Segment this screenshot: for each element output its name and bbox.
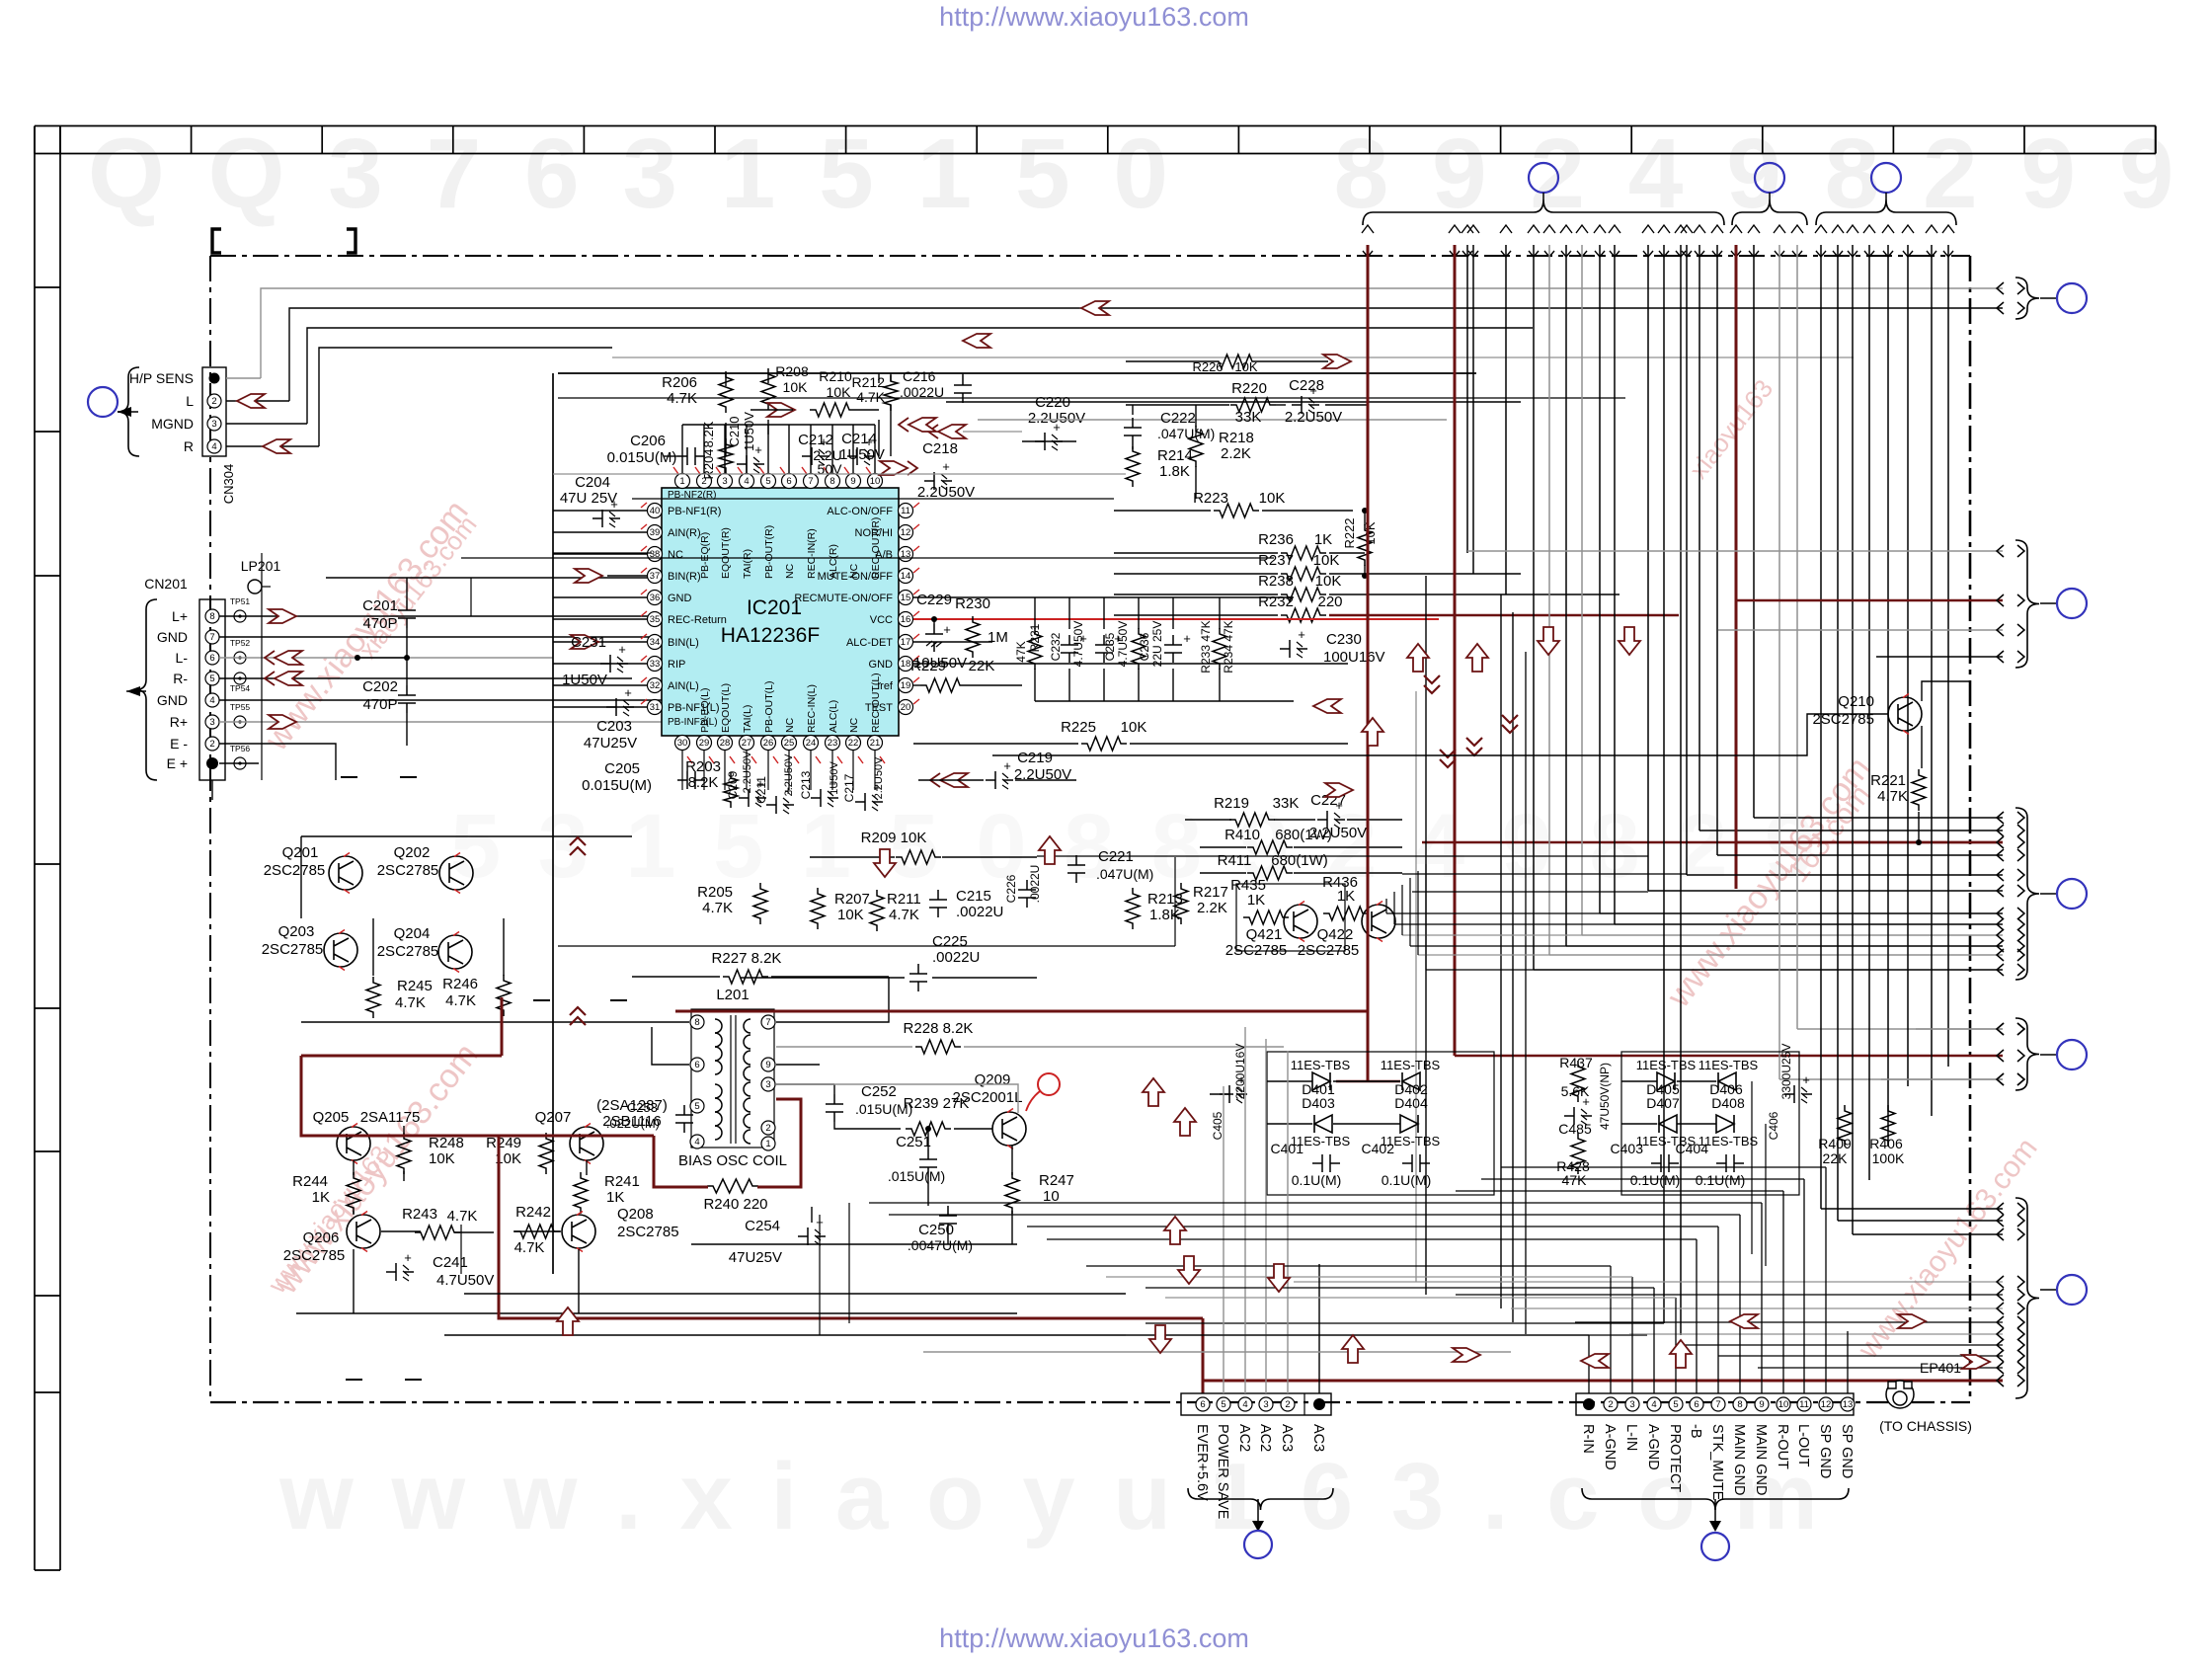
svg-text:0.1U(M): 0.1U(M) xyxy=(1630,1172,1681,1188)
svg-text:4.7U50V: 4.7U50V xyxy=(436,1272,494,1289)
transistor Q203 xyxy=(324,933,357,967)
svg-text:R204: R204 xyxy=(701,448,716,479)
transistor Q208 xyxy=(562,1215,595,1248)
wire ic left trunk xyxy=(552,373,554,1274)
cap C204 xyxy=(592,510,620,527)
svg-text:REC-IN(L): REC-IN(L) xyxy=(806,684,818,733)
wire E+ row xyxy=(219,762,259,764)
resistor R406 xyxy=(1881,1105,1895,1147)
resistor R206 xyxy=(719,371,733,413)
svg-text:HA12236F: HA12236F xyxy=(721,624,820,647)
svg-text:R219: R219 xyxy=(1214,795,1249,812)
svg-text:22: 22 xyxy=(848,738,859,749)
resistor R411 xyxy=(1247,866,1293,880)
group4 circle xyxy=(2040,1054,2056,1056)
svg-text:E -: E - xyxy=(170,736,188,752)
resistor R221 xyxy=(1912,769,1926,811)
svg-text:.0022U: .0022U xyxy=(932,949,980,966)
svg-text:6: 6 xyxy=(1694,1399,1698,1410)
wire gnd18 xyxy=(913,663,1348,665)
svg-text:NOR/HI: NOR/HI xyxy=(855,527,894,539)
svg-text:R242: R242 xyxy=(515,1204,551,1221)
bridge area crossing verticals xyxy=(1751,1081,1753,1254)
cap C230 xyxy=(1280,640,1307,658)
resistor R226 xyxy=(1213,355,1258,368)
svg-text:8.2K: 8.2K xyxy=(688,774,719,791)
cap C403 xyxy=(1651,1154,1679,1172)
svg-text:470P: 470P xyxy=(362,696,397,713)
arrow bin l xyxy=(571,635,598,649)
svg-text:AIN(R): AIN(R) xyxy=(668,527,701,539)
svg-text:36: 36 xyxy=(650,593,661,603)
resistor R225 xyxy=(1081,737,1127,751)
IC201 pin ticks xyxy=(913,503,919,508)
wire r218 col xyxy=(1195,405,1197,427)
svg-text:ALC-ON/OFF: ALC-ON/OFF xyxy=(827,506,893,517)
svg-text:REC-IN(R): REC-IN(R) xyxy=(806,528,818,579)
cap C205 xyxy=(677,771,705,789)
svg-text:35: 35 xyxy=(650,614,661,625)
svg-text:.0022U: .0022U xyxy=(956,904,1003,920)
svg-text:1: 1 xyxy=(679,476,684,487)
transistor Q205 xyxy=(337,1127,370,1160)
svg-text:C215: C215 xyxy=(956,888,991,905)
wire l201 top xyxy=(632,1021,689,1023)
svg-text:R227 8.2K: R227 8.2K xyxy=(712,950,782,967)
svg-text:1M: 1M xyxy=(987,629,1008,646)
wire top pins up xyxy=(681,425,683,473)
svg-text:R234 47K: R234 47K xyxy=(1222,620,1235,673)
svg-text:47U50V(NP): 47U50V(NP) xyxy=(1598,1063,1612,1130)
svg-text:C253: C253 xyxy=(627,1100,658,1115)
wire c201 top xyxy=(326,577,652,579)
wire red bias 2 xyxy=(301,1056,654,1136)
svg-text:1K: 1K xyxy=(1247,892,1265,909)
bus chevrons xyxy=(1362,225,1374,233)
svg-text:VCC: VCC xyxy=(870,614,893,626)
connector CN201 xyxy=(199,599,225,780)
svg-text:C230: C230 xyxy=(1326,631,1362,648)
svg-text:11: 11 xyxy=(901,506,910,516)
wire red up xyxy=(501,997,504,1056)
svg-text:24: 24 xyxy=(806,738,817,749)
diode D404 xyxy=(1400,1115,1418,1133)
svg-text:R229: R229 xyxy=(910,658,946,674)
svg-text:18: 18 xyxy=(901,659,911,670)
svg-text:2.2U50V: 2.2U50V xyxy=(1028,410,1085,427)
bus top braces xyxy=(1363,199,1724,225)
wire r220 row xyxy=(1126,404,1229,406)
group2 rows xyxy=(1467,550,2003,552)
transistor Q207 xyxy=(570,1127,603,1160)
svg-text:AC3: AC3 xyxy=(1279,1424,1295,1452)
test point TP56 xyxy=(234,757,246,769)
resistor R208 xyxy=(761,368,775,410)
svg-text:R212: R212 xyxy=(852,374,886,390)
strip2 circle xyxy=(1701,1533,1729,1560)
svg-text:A-GND: A-GND xyxy=(1602,1424,1618,1470)
svg-text:C404: C404 xyxy=(1676,1141,1709,1156)
svg-text:R-OUT: R-OUT xyxy=(1775,1424,1790,1469)
wire red bias 1 xyxy=(301,1055,502,1058)
svg-text:29: 29 xyxy=(699,738,710,749)
resistor R244 xyxy=(347,1172,360,1214)
svg-text:5: 5 xyxy=(1673,1399,1678,1410)
svg-text:D407: D407 xyxy=(1646,1095,1680,1111)
bridge wires xyxy=(1210,1093,1233,1095)
svg-text:28: 28 xyxy=(720,738,731,749)
bus vertical wires xyxy=(1367,245,1370,1081)
connector strip CN EVER xyxy=(1181,1393,1331,1415)
svg-text:C252: C252 xyxy=(861,1083,897,1100)
svg-text:4: 4 xyxy=(1651,1399,1656,1410)
wire c201 col xyxy=(406,578,408,600)
arrow r210 xyxy=(767,403,795,417)
svg-text:R411: R411 xyxy=(1218,852,1252,869)
transistor Q204 xyxy=(438,935,472,969)
wire red bias 4 xyxy=(757,1099,801,1187)
cluster R231 C232 C235 xyxy=(1028,628,1042,670)
svg-text:R243: R243 xyxy=(402,1206,437,1223)
svg-text:R206: R206 xyxy=(662,374,697,391)
transistor Q209 xyxy=(992,1112,1026,1146)
svg-text:2: 2 xyxy=(1285,1399,1290,1410)
arrow L- dbl xyxy=(275,651,302,665)
brace CN201 xyxy=(135,599,157,780)
arrow r226 xyxy=(1323,355,1351,368)
wire vcc red xyxy=(913,618,1439,620)
cap C216 xyxy=(954,375,972,403)
svg-text:A/B: A/B xyxy=(875,549,893,561)
wire E- row xyxy=(219,744,336,780)
cap C252 xyxy=(826,1094,843,1122)
svg-text:R205: R205 xyxy=(697,884,733,901)
svg-text:3300U25V: 3300U25V xyxy=(1779,1044,1793,1100)
test point TP51 xyxy=(234,610,246,622)
svg-text:470P: 470P xyxy=(362,615,397,632)
caps C209 C211 C213 C217 column xyxy=(739,789,766,807)
resistor R428 xyxy=(1571,1133,1585,1174)
svg-text:.015U(M): .015U(M) xyxy=(888,1168,945,1184)
svg-text:L-OUT: L-OUT xyxy=(1795,1424,1811,1467)
bus circle 3 xyxy=(1871,163,1901,193)
resistor R242 xyxy=(514,1225,560,1238)
svg-text:23: 23 xyxy=(828,738,838,749)
svg-text:SP GND: SP GND xyxy=(1839,1424,1855,1478)
svg-text:C232: C232 xyxy=(1049,632,1063,661)
svg-text:TEST: TEST xyxy=(865,702,893,714)
svg-text:MAIN GND: MAIN GND xyxy=(1753,1424,1769,1496)
svg-text:.047U(M): .047U(M) xyxy=(1096,866,1153,882)
svg-text:10K: 10K xyxy=(429,1150,455,1167)
svg-text:11ES-TBS: 11ES-TBS xyxy=(1291,1058,1351,1072)
cap C485 xyxy=(1564,1107,1592,1125)
svg-text:2SC2001L: 2SC2001L xyxy=(953,1089,1023,1106)
svg-text:11ES-TBS: 11ES-TBS xyxy=(1636,1058,1697,1072)
svg-text:R410: R410 xyxy=(1224,827,1260,843)
svg-text:C219: C219 xyxy=(1017,750,1053,766)
svg-text:2SC2785: 2SC2785 xyxy=(377,862,439,879)
resistor R247 xyxy=(1005,1172,1019,1214)
svg-text:40: 40 xyxy=(650,506,661,516)
svg-text:A-GND: A-GND xyxy=(1645,1424,1661,1470)
dash marks xyxy=(341,776,357,778)
cap C220 xyxy=(1035,433,1063,450)
wire r232 red xyxy=(1329,614,1679,616)
svg-text:3: 3 xyxy=(209,717,214,728)
svg-text:NC: NC xyxy=(848,717,860,733)
resistor R436 xyxy=(1323,907,1369,920)
svg-text:R244: R244 xyxy=(292,1173,328,1190)
svg-text:C231: C231 xyxy=(571,634,606,651)
svg-text:37: 37 xyxy=(650,571,661,582)
resistor R243 xyxy=(415,1226,460,1239)
svg-text:10K: 10K xyxy=(1315,573,1342,590)
svg-text:4.7U50V: 4.7U50V xyxy=(1071,621,1085,668)
svg-text:R218: R218 xyxy=(1219,430,1254,446)
transistor Q421 xyxy=(1284,905,1317,938)
svg-text:10: 10 xyxy=(1778,1399,1789,1410)
svg-text:NC: NC xyxy=(668,549,683,561)
svg-text:1K: 1K xyxy=(1337,888,1355,905)
resistor R213 xyxy=(1126,888,1140,929)
svg-text:9: 9 xyxy=(850,476,855,487)
cap C227 xyxy=(1317,811,1345,829)
svg-text:NC: NC xyxy=(784,563,796,579)
svg-text:4.7K: 4.7K xyxy=(447,1208,478,1225)
wire below ic verticals xyxy=(681,750,683,790)
group5 circle xyxy=(2040,1289,2056,1291)
svg-text:2.2U50V: 2.2U50V xyxy=(742,751,753,793)
svg-text:R220: R220 xyxy=(1231,380,1267,397)
cap C241 xyxy=(386,1263,414,1281)
group1 connector rows xyxy=(1997,282,2024,294)
cap C401 xyxy=(1312,1154,1340,1172)
cap C405 xyxy=(1220,1085,1247,1103)
resistor R227 xyxy=(723,970,768,984)
svg-text:http://www.xiaoyu163.com: http://www.xiaoyu163.com xyxy=(939,1623,1249,1653)
transistor Q422 xyxy=(1362,905,1395,938)
svg-text:21: 21 xyxy=(870,738,881,749)
wire cluster top xyxy=(1035,596,1294,598)
svg-text:22U 25V: 22U 25V xyxy=(1150,621,1164,668)
svg-text:RECMUTE-ON/OFF: RECMUTE-ON/OFF xyxy=(794,593,893,604)
svg-text:TP51: TP51 xyxy=(230,596,251,606)
svg-text:R211: R211 xyxy=(887,891,921,908)
resistor R435 xyxy=(1243,911,1289,924)
wire red vbus2 xyxy=(1454,245,1457,619)
test point TP52 xyxy=(234,652,246,664)
svg-text:TP52: TP52 xyxy=(230,638,251,648)
left ruler band xyxy=(34,126,36,1571)
svg-text:BIN(L): BIN(L) xyxy=(668,637,699,649)
svg-text:4.7K: 4.7K xyxy=(702,900,733,916)
resistor R218 xyxy=(1189,426,1203,467)
svg-text:MUTE-ON/OFF: MUTE-ON/OFF xyxy=(818,571,894,583)
svg-text:w w w . x i a o y u 1 6 3 . c: w w w . x i a o y u 1 6 3 . c o m xyxy=(278,1444,1824,1549)
wire red group3 xyxy=(1422,841,2003,844)
svg-text:Iref: Iref xyxy=(877,680,894,692)
svg-text:PROTECT: PROTECT xyxy=(1667,1424,1683,1492)
strip1 circle xyxy=(1244,1531,1272,1558)
svg-text:C405: C405 xyxy=(1211,1111,1224,1140)
svg-text:11ES-TBS: 11ES-TBS xyxy=(1381,1058,1441,1072)
EP401 symbol xyxy=(1886,1381,1914,1408)
svg-text:GND: GND xyxy=(157,629,188,645)
svg-text:10K: 10K xyxy=(1259,490,1286,507)
cap C202 xyxy=(398,685,416,713)
svg-text:C402: C402 xyxy=(1362,1141,1395,1156)
svg-text:.0022U: .0022U xyxy=(1028,865,1042,904)
bridge rect left xyxy=(1267,1052,1494,1195)
svg-text:C203: C203 xyxy=(596,718,632,735)
arrow c218 dbl xyxy=(880,461,908,475)
svg-text:MAIN GND: MAIN GND xyxy=(1731,1424,1747,1496)
svg-text:2.2K: 2.2K xyxy=(1221,445,1251,462)
extra arrows bus xyxy=(1424,675,1440,693)
svg-text:1U50V: 1U50V xyxy=(829,761,840,795)
svg-text:5: 5 xyxy=(694,1101,699,1112)
svg-text:4.7K: 4.7K xyxy=(889,907,919,923)
group4 rows xyxy=(1916,1028,2003,1030)
svg-text:1K: 1K xyxy=(606,1189,624,1206)
cap C214 xyxy=(847,447,875,465)
svg-text:+: + xyxy=(1802,1072,1810,1087)
resistor R204 xyxy=(719,438,733,474)
svg-text:22K: 22K xyxy=(1823,1150,1849,1166)
svg-text:PB-EQ(R): PB-EQ(R) xyxy=(699,532,711,579)
svg-text:R214: R214 xyxy=(1157,447,1193,464)
svg-text:NC: NC xyxy=(784,717,796,733)
svg-text:680(1W): 680(1W) xyxy=(1271,852,1328,869)
group3 circle xyxy=(2040,893,2056,895)
cap C221 xyxy=(1067,855,1085,883)
test point TP55 xyxy=(234,716,246,728)
brace CN304 xyxy=(118,367,139,456)
svg-text:L-: L- xyxy=(176,650,189,666)
resistor R437 xyxy=(1571,1061,1585,1102)
svg-text:2.2K: 2.2K xyxy=(1197,900,1227,916)
svg-text:E +: E + xyxy=(167,755,188,771)
resistor R229 xyxy=(920,678,966,692)
cap C254 xyxy=(798,1227,826,1245)
svg-text:R249: R249 xyxy=(486,1135,521,1151)
svg-text:1.8K: 1.8K xyxy=(1159,463,1190,480)
svg-text:R203: R203 xyxy=(685,758,721,775)
svg-text:.047U(M): .047U(M) xyxy=(1157,426,1215,441)
svg-text:1K: 1K xyxy=(312,1189,330,1206)
long wires bottom left xyxy=(464,1293,1126,1295)
svg-text:32: 32 xyxy=(650,680,661,691)
resistor R219 xyxy=(1229,813,1275,827)
wire L+ row xyxy=(219,615,652,617)
strip1 arrow xyxy=(1257,1499,1259,1521)
wire L- row xyxy=(219,657,553,659)
diode D406 xyxy=(1718,1072,1736,1090)
svg-text:Q Q 3 7 6 3 1 5 1 5 0: Q Q 3 7 6 3 1 5 1 5 0 xyxy=(88,119,1176,229)
connector CN304 xyxy=(202,367,226,456)
svg-text:27: 27 xyxy=(742,738,752,749)
wires q209 area xyxy=(833,1084,835,1094)
svg-text:+: + xyxy=(618,642,626,657)
svg-text:GND: GND xyxy=(157,692,188,708)
svg-text:Q204: Q204 xyxy=(394,925,431,942)
wire red down branch xyxy=(499,1136,1203,1318)
wire red vbus3 xyxy=(1735,245,1738,889)
q210 wires xyxy=(1921,726,1923,768)
svg-text:22K: 22K xyxy=(969,658,995,674)
resistor R211 xyxy=(870,890,884,931)
cap C228 xyxy=(1292,396,1319,414)
svg-text:C212: C212 xyxy=(798,432,833,448)
svg-text:H/P SENS: H/P SENS xyxy=(129,370,194,386)
wires lower block xyxy=(353,1160,355,1175)
resistor R222 xyxy=(1358,524,1372,566)
svg-text:R437: R437 xyxy=(1559,1055,1593,1070)
svg-text:L-IN: L-IN xyxy=(1623,1424,1639,1451)
resistor R210 xyxy=(810,403,855,417)
svg-text:Q202: Q202 xyxy=(394,844,431,861)
group5 brace xyxy=(2015,1198,2039,1398)
svg-text:CN201: CN201 xyxy=(144,576,188,592)
arrow R+ xyxy=(269,715,296,729)
svg-text:MGND: MGND xyxy=(151,416,194,432)
svg-text:4: 4 xyxy=(1242,1399,1247,1410)
resistor R214 xyxy=(1126,445,1140,487)
svg-text:1U50V: 1U50V xyxy=(562,672,607,688)
wire long under ic xyxy=(558,945,1175,947)
svg-text:0.015U(M): 0.015U(M) xyxy=(607,449,677,466)
svg-text:REC-Return: REC-Return xyxy=(668,614,727,626)
svg-text:1U50V: 1U50V xyxy=(742,412,756,451)
arrow R- dbl xyxy=(275,672,302,685)
cap C222 xyxy=(1124,418,1142,445)
svg-text:R246: R246 xyxy=(442,976,478,992)
svg-text:3: 3 xyxy=(722,476,727,487)
wire bus A xyxy=(261,288,2003,378)
svg-text:47K: 47K xyxy=(1014,641,1028,662)
svg-text:R238: R238 xyxy=(1258,573,1294,590)
wire long mid1 xyxy=(470,578,472,616)
svg-text:C222: C222 xyxy=(1160,410,1196,427)
svg-text:RIP: RIP xyxy=(668,659,685,671)
svg-text:AC3: AC3 xyxy=(1310,1424,1326,1452)
svg-text:C214: C214 xyxy=(841,431,877,447)
svg-text:C202: C202 xyxy=(362,678,398,695)
cap C206 xyxy=(677,447,705,465)
arrow r219 xyxy=(1325,783,1353,797)
svg-text:L: L xyxy=(186,393,194,409)
transistor Q202 xyxy=(439,856,473,890)
svg-text:2: 2 xyxy=(1608,1399,1613,1410)
svg-text:9: 9 xyxy=(765,1060,770,1070)
wire q20x box xyxy=(301,835,632,837)
svg-text:8: 8 xyxy=(829,476,834,487)
svg-text:3: 3 xyxy=(1263,1399,1268,1410)
block boundary dash-dot right xyxy=(1969,256,1972,1402)
svg-text:0.1U(M): 0.1U(M) xyxy=(1696,1172,1746,1188)
cap C406 xyxy=(1784,1085,1812,1103)
svg-text:7: 7 xyxy=(209,632,214,643)
resistor R228 xyxy=(915,1040,961,1054)
svg-text:14: 14 xyxy=(901,571,911,582)
wire left vertical main xyxy=(261,553,263,780)
cap C212 xyxy=(802,447,829,465)
svg-text:C225: C225 xyxy=(932,933,968,950)
svg-text:20: 20 xyxy=(901,702,911,713)
test point TP54 xyxy=(234,673,246,684)
svg-text:R245: R245 xyxy=(397,978,433,994)
